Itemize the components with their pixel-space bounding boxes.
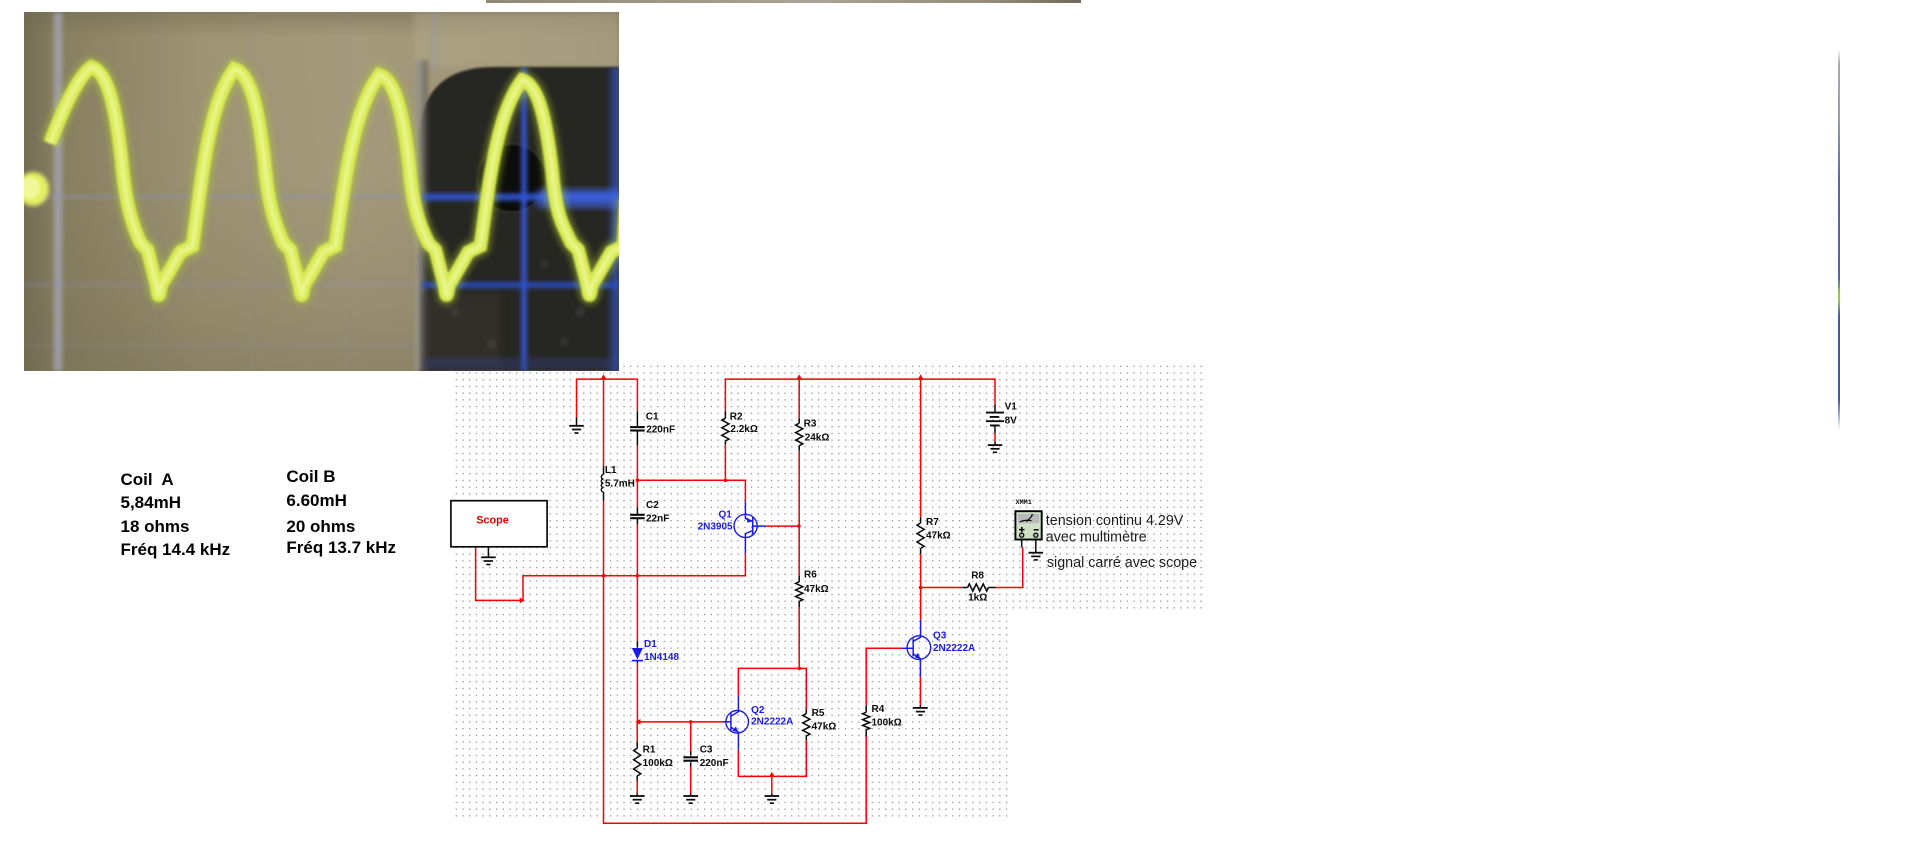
svg-text:2N2222A: 2N2222A	[751, 716, 793, 727]
svg-text:1N4148: 1N4148	[644, 652, 679, 663]
svg-text:L1: L1	[605, 465, 617, 476]
svg-text:C3: C3	[700, 745, 713, 756]
svg-text:XMM1: XMM1	[1016, 499, 1032, 507]
svg-text:47kΩ: 47kΩ	[804, 584, 829, 595]
svg-text:1kΩ: 1kΩ	[968, 593, 987, 604]
svg-text:22nF: 22nF	[646, 513, 669, 524]
svg-text:R3: R3	[804, 419, 817, 430]
svg-text:Q3: Q3	[933, 630, 947, 641]
svg-text:R7: R7	[926, 517, 939, 528]
svg-text:8V: 8V	[1005, 416, 1018, 427]
svg-text:24kΩ: 24kΩ	[805, 432, 830, 443]
svg-text:R5: R5	[812, 708, 825, 719]
svg-text:100kΩ: 100kΩ	[872, 718, 902, 729]
svg-text:avec multimètre: avec multimètre	[1046, 530, 1147, 546]
svg-text:R8: R8	[971, 571, 984, 582]
svg-text:Scope: Scope	[476, 515, 508, 527]
svg-text:signal carré avec scope: signal carré avec scope	[1047, 555, 1197, 571]
svg-text:Q2: Q2	[751, 705, 765, 716]
svg-text:2N3905: 2N3905	[698, 522, 733, 533]
svg-text:R1: R1	[643, 745, 656, 756]
svg-text:tension continu 4.29V: tension continu 4.29V	[1046, 513, 1184, 529]
svg-text:R6: R6	[804, 570, 817, 581]
svg-text:C2: C2	[646, 500, 659, 511]
svg-text:R4: R4	[872, 704, 885, 715]
svg-text:C1: C1	[646, 412, 659, 423]
svg-text:220nF: 220nF	[646, 425, 675, 436]
svg-text:2N2222A: 2N2222A	[933, 643, 975, 654]
svg-text:R2: R2	[730, 412, 743, 423]
svg-text:220nF: 220nF	[700, 758, 729, 769]
svg-text:5.7mH: 5.7mH	[605, 479, 635, 490]
svg-text:47kΩ: 47kΩ	[926, 530, 951, 541]
svg-text:47kΩ: 47kΩ	[812, 721, 837, 732]
svg-text:2.2kΩ: 2.2kΩ	[730, 424, 757, 435]
svg-text:100kΩ: 100kΩ	[643, 758, 673, 769]
svg-text:V1: V1	[1005, 401, 1018, 412]
svg-text:D1: D1	[644, 639, 657, 650]
svg-text:Q1: Q1	[718, 510, 732, 521]
